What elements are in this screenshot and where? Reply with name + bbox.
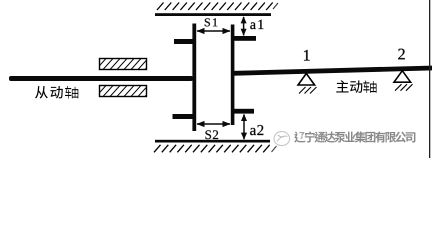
top reference line	[155, 13, 271, 16]
dimension S2 arrow	[197, 121, 231, 127]
bearing housing lower (hatched)	[96, 86, 155, 97]
support bearing 1 triangle	[298, 74, 317, 94]
wall hatching (bottom)	[154, 145, 277, 153]
dimension a1 arrow	[241, 16, 247, 36]
dimension a2 label	[250, 125, 263, 135]
dimension S1 label	[205, 18, 217, 26]
drive shaft label 主动轴	[336, 80, 376, 93]
dimension S1 arrow	[197, 28, 231, 34]
driven flange bottom rim stub	[173, 114, 194, 119]
support 1 label	[304, 50, 310, 61]
dimension a2 arrow	[241, 114, 247, 140]
driven flange top rim stub	[174, 39, 193, 44]
driver coupling flange vertical	[231, 25, 235, 126]
wall hatching (top)	[157, 3, 278, 11]
dimension a1 label	[250, 20, 263, 29]
bearing housing upper (hatched)	[96, 59, 155, 70]
driven coupling flange vertical	[192, 24, 196, 132]
watermark text 辽宁通达泵业集团有限公司	[294, 131, 415, 142]
support 2 label	[398, 49, 404, 60]
drive shaft (right, tilted)	[233, 66, 432, 76]
image right border line	[429, 0, 430, 158]
support bearing 2 triangle	[394, 71, 413, 91]
dimension S2 label	[205, 130, 218, 139]
driver flange bottom rim stub	[234, 109, 254, 114]
bottom reference line	[155, 140, 270, 143]
watermark logo circle	[274, 132, 290, 146]
driven shaft label 从动轴	[35, 86, 78, 99]
driver flange top rim stub	[234, 36, 256, 41]
driven shaft (left)	[9, 76, 193, 81]
